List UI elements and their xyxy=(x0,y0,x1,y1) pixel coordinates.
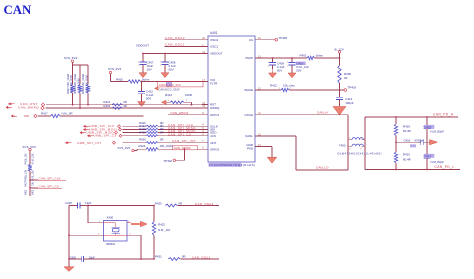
power B_12V xyxy=(335,47,345,65)
svg-text:0R: 0R xyxy=(182,255,186,259)
svg-text:TP405: TP405 xyxy=(279,36,288,40)
resistor R430 OSC2 xyxy=(155,201,219,207)
capacitor C416 tap xyxy=(396,138,429,147)
svg-text:TP403: TP403 xyxy=(348,86,357,90)
capacitor C409 xyxy=(268,58,285,73)
svg-text:UMB_SPI_INT: UMB_SPI_INT xyxy=(77,141,101,145)
svg-text:R429: R429 xyxy=(139,130,146,134)
svg-text:0R: 0R xyxy=(179,201,183,205)
net label CAN_OSC2 xyxy=(165,36,203,40)
svg-text:UMB_SPI_CS: UMB_SPI_CS xyxy=(94,134,117,138)
wire crystal pin1 drop xyxy=(87,206,89,223)
svg-text:10k_ohm: 10k_ohm xyxy=(283,83,295,87)
svg-text:Rs: Rs xyxy=(249,38,253,42)
node VDDOUT label xyxy=(136,44,149,48)
power SYS_3V3 pullups xyxy=(64,56,88,65)
svg-text:C416: C416 xyxy=(404,138,411,142)
svg-text:SYS_3V3: SYS_3V3 xyxy=(23,145,36,149)
svg-text:CAN_SPI_CLK: CAN_SPI_CLK xyxy=(39,177,61,181)
net label box on VIO wire xyxy=(158,82,204,88)
svg-text:100pF: 100pF xyxy=(345,101,353,105)
svg-text:CAN_LO: CAN_LO xyxy=(316,166,329,170)
crystal X400 box xyxy=(104,216,128,246)
resistor R423 xyxy=(394,142,410,169)
svg-text:CAN_GPIO2: CAN_GPIO2 xyxy=(174,146,191,150)
test point TP405 xyxy=(275,36,287,41)
svg-text:R415: R415 xyxy=(104,104,111,108)
svg-text:4700pF: 4700pF xyxy=(415,138,425,142)
svg-text:SYS_3V3: SYS_3V3 xyxy=(108,67,121,71)
svg-text:0R: 0R xyxy=(123,104,127,108)
svg-text:0402: 0402 xyxy=(25,189,27,195)
resistor R425 chain xyxy=(24,153,34,181)
test point TP403 xyxy=(340,86,357,92)
svg-text:2: 2 xyxy=(160,65,161,67)
svg-text:13pF: 13pF xyxy=(89,255,96,259)
svg-text:50V: 50V xyxy=(169,68,174,72)
svg-text:1: 1 xyxy=(138,62,139,64)
svg-text:CAN_OSC2: CAN_OSC2 xyxy=(195,202,214,206)
svg-text:R420: R420 xyxy=(139,137,146,141)
svg-text:WAKE: WAKE xyxy=(244,88,253,92)
svg-text:CAN_SPI_CS: CAN_SPI_CS xyxy=(168,132,192,136)
svg-text:N.M._0R: N.M._0R xyxy=(62,112,73,116)
resistor R424 xyxy=(139,144,174,151)
svg-text:R422: R422 xyxy=(158,223,165,227)
svg-text:C418: C418 xyxy=(65,201,72,205)
svg-text:50V: 50V xyxy=(277,68,282,72)
svg-text:1: 1 xyxy=(160,62,161,64)
svg-text:FLTR: FLTR xyxy=(210,82,218,86)
svg-text:R417: R417 xyxy=(41,112,48,116)
off-page UMB_SPI_INT xyxy=(65,141,116,145)
ground for C410 xyxy=(288,73,296,78)
svg-text:60.4R: 60.4R xyxy=(403,158,411,162)
capacitor C412 xyxy=(138,82,154,102)
resistor R422 xyxy=(152,206,170,260)
resistor R407 pullup xyxy=(66,65,75,106)
power SYS_3V3 chain xyxy=(23,145,36,165)
svg-text:100R: 100R xyxy=(185,93,192,97)
wire crystal pin2 xyxy=(69,234,104,236)
svg-text:nCS: nCS xyxy=(210,134,216,138)
chain mid xyxy=(24,180,34,189)
resistor R417 xyxy=(38,112,144,118)
svg-text:SYS_3V3: SYS_3V3 xyxy=(64,56,77,60)
svg-text:CAN_SPI_INT: CAN_SPI_INT xyxy=(172,139,196,143)
resistor R406 xyxy=(338,65,352,91)
wire Rs pin16 xyxy=(255,39,275,41)
svg-text:0R: 0R xyxy=(160,130,164,134)
IC U401 body TCAN4550 xyxy=(208,31,255,162)
wire CAN_H xyxy=(255,110,348,115)
ground for C407 xyxy=(139,73,147,78)
common-mode choke T400 xyxy=(339,115,365,170)
capacitor C418 xyxy=(65,201,155,209)
svg-text:1: 1 xyxy=(287,62,288,64)
IC left pins xyxy=(202,37,223,151)
svg-text:60.4R: 60.4R xyxy=(403,129,411,133)
svg-text:U401: U401 xyxy=(210,31,218,35)
resistor R410 xyxy=(116,78,150,84)
svg-text:CAN-ECO_33UF: CAN-ECO_33UF xyxy=(159,87,181,91)
svg-text:CAN: CAN xyxy=(4,3,32,17)
capacitor C410 xyxy=(287,58,309,73)
svg-text:0402: 0402 xyxy=(33,189,35,195)
svg-text:N.M._1M: N.M._1M xyxy=(158,228,170,232)
svg-text:R421: R421 xyxy=(155,255,162,259)
capacitor C415 xyxy=(424,117,445,142)
wire VSUP row xyxy=(255,57,340,59)
wire crystal pin3 xyxy=(127,234,142,260)
svg-text:R426_10K: R426_10K xyxy=(24,169,27,181)
ground GND PAD xyxy=(255,147,277,164)
svg-text:NLM_10K_OHM: NLM_10K_OHM xyxy=(85,75,88,93)
svg-text:50V: 50V xyxy=(146,96,151,100)
svg-text:NLM_10K_OHM: NLM_10K_OHM xyxy=(70,75,73,93)
crystal symbol xyxy=(104,223,127,235)
ground arrow at R413 xyxy=(161,100,166,104)
power arrow pin4 xyxy=(141,221,148,227)
svg-text:OSC1: OSC1 xyxy=(210,45,219,49)
svg-text:TP402: TP402 xyxy=(164,159,173,163)
svg-text:DLW43SH510XK2(L=RoHS): DLW43SH510XK2(L=RoHS) xyxy=(338,152,383,156)
svg-text:GPIO2: GPIO2 xyxy=(210,147,220,151)
wire CAN_WKRQ row xyxy=(45,107,202,109)
wire CAN_PD_L rail xyxy=(365,169,460,171)
capacitor C420 xyxy=(69,255,155,262)
svg-text:R413: R413 xyxy=(165,93,172,97)
net label CAN_GPIO2 xyxy=(158,146,208,150)
svg-text:nINT: nINT xyxy=(210,141,217,145)
resistor R431 OSC1 xyxy=(155,255,219,261)
svg-text:CAN_SPI_CS: CAN_SPI_CS xyxy=(39,185,60,189)
test point TP402 xyxy=(164,148,186,163)
svg-text:N.M_82pF: N.M_82pF xyxy=(431,129,445,133)
chassis ground arrow xyxy=(430,140,438,145)
svg-text:0R: 0R xyxy=(160,137,164,141)
svg-text:WKRQ: WKRQ xyxy=(210,106,220,110)
wire CAN_PD_H rail xyxy=(365,116,458,118)
svg-text:10K_OHM: 10K_OHM xyxy=(77,78,80,89)
SPI row CAN_SPI_CLK xyxy=(83,121,202,128)
ground for C413 xyxy=(333,107,346,116)
net label CAN_SPI_CS bottom xyxy=(30,185,62,189)
resistor R419 xyxy=(394,117,410,143)
svg-text:R419: R419 xyxy=(403,125,410,129)
svg-text:CAN_PD_L: CAN_PD_L xyxy=(435,165,455,169)
off-page SW xyxy=(11,114,38,118)
net label CAN_SPI_CLK bottom xyxy=(30,177,66,181)
svg-text:TCAN4550RGYRQ1(RoHS): TCAN4550RGYRQ1(RoHS) xyxy=(209,163,256,167)
off-page CAN_WKRQ xyxy=(6,105,45,109)
svg-text:VDDOUT: VDDOUT xyxy=(136,44,149,48)
svg-text:C420: C420 xyxy=(70,255,77,259)
title CAN xyxy=(4,3,32,17)
svg-text:VDDOUT: VDDOUT xyxy=(210,52,223,56)
svg-text:C417: C417 xyxy=(424,154,431,158)
svg-text:X400: X400 xyxy=(107,216,114,220)
svg-text:R410: R410 xyxy=(116,78,123,82)
svg-text:R420: R420 xyxy=(155,201,162,205)
svg-text:R427: R427 xyxy=(24,180,27,186)
svg-text:VSUP: VSUP xyxy=(245,56,253,60)
svg-text:R402: R402 xyxy=(300,54,307,58)
capacitor C407 xyxy=(138,54,154,73)
resistor R415 xyxy=(104,104,127,109)
svg-text:2: 2 xyxy=(138,65,139,67)
SPI row CAN_SPI_MISO xyxy=(83,124,202,131)
svg-text:NLM_10K: NLM_10K xyxy=(32,170,35,181)
svg-text:GPIO1: GPIO1 xyxy=(210,113,220,117)
svg-text:13pF: 13pF xyxy=(85,201,92,205)
resistor R420 SPI INT xyxy=(123,137,203,144)
wire crystal pin1 xyxy=(88,221,104,223)
wire CAN_RST row xyxy=(46,104,202,106)
SPI row CAN_SPI_MOSI xyxy=(80,127,203,134)
choke part number xyxy=(338,152,383,156)
resistor R414 xyxy=(104,100,127,106)
svg-text:CANH: CANH xyxy=(244,113,253,117)
svg-text:SW: SW xyxy=(24,114,29,118)
svg-text:CAN_PD_H: CAN_PD_H xyxy=(433,113,454,117)
capacitor C413 xyxy=(336,90,354,106)
ground for C412 xyxy=(138,102,146,107)
net label CAN_OSC1 xyxy=(165,43,203,47)
ground for C408 xyxy=(161,73,169,78)
capacitor C417 xyxy=(424,142,445,169)
resistor R413 xyxy=(165,93,192,105)
wire crystal left rail xyxy=(68,206,70,260)
IC right pins xyxy=(244,37,261,151)
resistor R408 pullup xyxy=(73,65,82,109)
ground for C409 xyxy=(269,73,277,78)
wire crystal pin4 xyxy=(127,221,141,224)
wire VDDOUT xyxy=(142,53,202,55)
svg-text:16V: 16V xyxy=(147,68,152,72)
capacitor C408 xyxy=(160,54,176,73)
svg-text:10K_OHM: 10K_OHM xyxy=(160,144,174,148)
svg-text:CAN_H: CAN_H xyxy=(317,110,328,114)
svg-text:2: 2 xyxy=(287,66,288,68)
wire CAN_LO xyxy=(255,136,348,170)
svg-text:SYS_3V3: SYS_3V3 xyxy=(118,146,131,150)
svg-text:10K: 10K xyxy=(32,181,35,186)
IC U401 part number label xyxy=(209,163,256,167)
chain tail xyxy=(25,189,34,196)
svg-text:N.M_82pF: N.M_82pF xyxy=(431,160,445,164)
power SYS_3V3 at R410 xyxy=(108,67,128,81)
svg-text:2K: 2K xyxy=(344,76,348,80)
off-page CAN_RST xyxy=(8,102,45,106)
svg-text:CAN_WKRQ: CAN_WKRQ xyxy=(18,105,39,109)
ground crystal xyxy=(64,258,74,271)
net label CAN_PD_H xyxy=(433,113,454,117)
svg-text:T400: T400 xyxy=(339,144,346,148)
svg-text:R412: R412 xyxy=(270,83,277,87)
resistor R402 xyxy=(300,54,340,60)
svg-text:1: 1 xyxy=(268,62,269,64)
net label CAN_GPIO1 xyxy=(168,111,202,115)
svg-text:OSC2: OSC2 xyxy=(210,38,219,42)
svg-text:R424: R424 xyxy=(139,144,146,148)
svg-text:50V: 50V xyxy=(296,68,301,72)
svg-text:0ohm: 0ohm xyxy=(316,54,324,58)
note CAN-ECO-33UF xyxy=(155,87,181,92)
svg-text:2: 2 xyxy=(268,66,269,68)
svg-text:CAN_OSC1: CAN_OSC1 xyxy=(192,255,211,259)
svg-text:R423: R423 xyxy=(403,152,410,156)
svg-text:40MHz: 40MHz xyxy=(106,242,116,246)
SPI row CAN_SPI_CS xyxy=(87,130,202,137)
net label CAN_PD_L xyxy=(435,165,455,169)
power SYS_3V3 GPIO2 xyxy=(118,146,147,152)
svg-text:NLM_10K: NLM_10K xyxy=(32,153,35,164)
svg-text:R425_10K: R425_10K xyxy=(24,153,27,165)
svg-text:CANL: CANL xyxy=(245,134,253,138)
resistor R409 pullup xyxy=(81,65,90,106)
wire VIO row xyxy=(141,81,203,83)
svg-text:PAD: PAD xyxy=(247,147,254,151)
resistor R412 WAKE xyxy=(255,83,340,91)
